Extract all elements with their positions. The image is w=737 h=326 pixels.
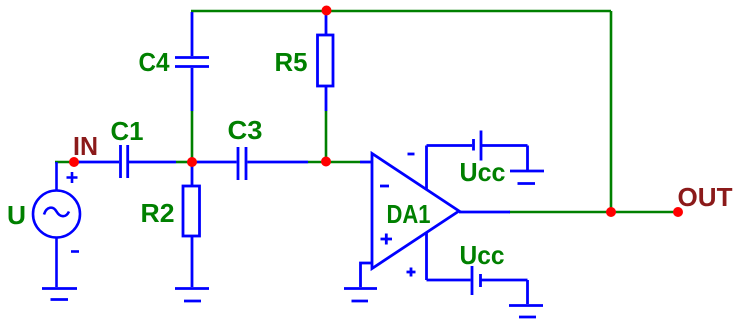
wire C1 to node B — [176, 161, 192, 164]
wire output horizontal — [509, 211, 678, 214]
ground (op-amp + input) — [344, 289, 377, 302]
node OUT dot — [673, 207, 683, 217]
svg-text:IN: IN — [73, 131, 98, 161]
svg-text:R2: R2 — [141, 198, 175, 228]
resistor R2 — [183, 162, 200, 287]
svg-text:C4: C4 — [139, 47, 170, 77]
battery Ucc (top) — [474, 131, 528, 171]
source U — [33, 162, 80, 287]
svg-text:R5: R5 — [275, 47, 308, 77]
node B junction dot — [187, 157, 197, 167]
pin V- power (top) — [408, 146, 473, 190]
op-amp DA1 — [360, 154, 459, 269]
capacitor C4 — [175, 12, 209, 111]
resistor R5 — [318, 11, 334, 111]
capacitor C1 — [74, 145, 176, 178]
wire source to IN node — [55, 161, 80, 164]
wire right vertical feedback — [610, 11, 613, 212]
svg-text:U: U — [7, 200, 26, 230]
wire R5 bottom to node C — [325, 111, 328, 162]
node top junction dot — [322, 6, 332, 16]
capacitor C3 — [192, 147, 308, 180]
wire op-amp + input to ground — [361, 263, 373, 287]
ground (R2) — [175, 289, 209, 302]
svg-text:C1: C1 — [111, 116, 144, 146]
ground (bottom Ucc) — [509, 306, 543, 318]
svg-text:Ucc: Ucc — [460, 157, 506, 187]
ground (top Ucc) — [510, 171, 544, 184]
node IN junction dot — [69, 157, 79, 167]
node C junction dot — [321, 157, 331, 167]
svg-text:OUT: OUT — [678, 182, 733, 212]
wire C4 bottom to node B — [191, 111, 194, 162]
node output junction dot — [606, 207, 616, 217]
ground (source) — [42, 289, 77, 300]
wire op-amp output lead — [459, 211, 510, 214]
wire top feedback rail — [191, 10, 611, 13]
pin V+ power (bottom) — [407, 233, 471, 280]
battery Ucc (bottom) — [472, 266, 528, 304]
svg-text:C3: C3 — [228, 115, 263, 145]
wire C3 to node C — [308, 161, 326, 164]
svg-text:Ucc: Ucc — [460, 240, 505, 270]
svg-text:DA1: DA1 — [387, 199, 431, 229]
wire node C to op-amp input — [326, 161, 360, 164]
